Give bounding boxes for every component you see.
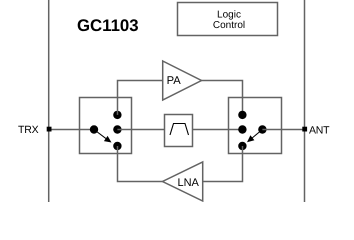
SW2 pole dot (258, 125, 266, 133)
svg-text:PA: PA (167, 75, 182, 87)
amplifier LNA (163, 162, 203, 201)
wire filter to SW2 middle throw (193, 129, 243, 131)
switch SW2 box (229, 98, 282, 154)
svg-text:LNA: LNA (178, 177, 200, 189)
wire SW2 bottom throw to LNA input (203, 146, 243, 182)
ANT pad (302, 127, 307, 132)
TRX pad (47, 127, 52, 132)
switch SW1 box (80, 98, 132, 154)
SW1 wiper arrow (94, 130, 112, 143)
wire TRX pad to SW1 pole (49, 129, 94, 131)
chip outline left border (48, 0, 50, 202)
wire SW2 pole to ANT pad (262, 129, 304, 131)
svg-text:TRX: TRX (18, 124, 39, 136)
logic control block U3 (178, 3, 278, 36)
chip outline right border (304, 0, 306, 202)
filter bandpass symbol (170, 124, 189, 136)
logic control label (213, 9, 245, 31)
svg-text:Logic: Logic (217, 9, 241, 20)
SW2 wiper arrow (247, 130, 262, 143)
svg-text:GC1103: GC1103 (77, 16, 139, 35)
wire LNA output to SW1 bottom throw (118, 146, 163, 182)
SW2 throw dot bottom (238, 142, 246, 150)
svg-text:Control: Control (213, 20, 245, 31)
svg-text:ANT: ANT (309, 125, 330, 137)
SW2 throw dot middle (238, 125, 246, 133)
SW1 throw dot middle (113, 125, 121, 133)
SW2 throw dot top (238, 111, 246, 119)
SW1 throw dot bottom (113, 142, 121, 150)
wire PA output to SW2 top throw (202, 81, 243, 115)
SW1 throw dot top (113, 111, 121, 119)
filter F1 box (165, 115, 193, 147)
SW1 pole dot (90, 125, 98, 133)
amplifier PA (163, 61, 202, 100)
wire SW1 top throw to PA input (118, 81, 163, 115)
wire SW1 middle throw to filter (117, 129, 164, 131)
